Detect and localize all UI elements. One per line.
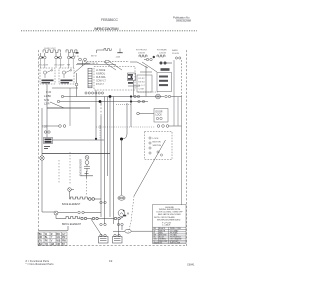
harness connector circles mid: [100, 201, 106, 203]
wire bus y101.5: [57, 100, 148, 102]
connector ladder strip: [88, 68, 92, 88]
junction node dot F: [95, 138, 97, 140]
wire dotted y127: [96, 126, 155, 128]
wire dashed row under relay: [138, 91, 158, 93]
bake element: [70, 197, 102, 200]
terminal drop from L1 pair: [75, 73, 78, 97]
svg-text:* = Non-Illustrated Parts: * = Non-Illustrated Parts: [26, 262, 55, 266]
svg-text:C6841: C6841: [187, 263, 195, 266]
center harness vertical 4: [109, 97, 111, 218]
svg-text:LR 1200W: LR 1200W: [54, 65, 65, 67]
wire diagonal L1 into control: [104, 62, 116, 70]
svg-text:LOCK: LOCK: [156, 115, 163, 117]
infinite switch box 1: [40, 68, 55, 84]
center harness vertical 1: [100, 102, 102, 218]
svg-text:BK W BK W: BK W BK W: [86, 63, 99, 65]
wire relay tee: [128, 62, 152, 97]
svg-text:BAKE ELEMENT: BAKE ELEMENT: [62, 203, 81, 206]
svg-text:K1 K2: K1 K2: [139, 78, 146, 80]
wire diagonal to N terminal: [74, 62, 87, 73]
relay box with contact dot: [128, 73, 136, 81]
svg-text:N.O. C: N.O. C: [139, 85, 146, 87]
wire dashed vertical x70 lower: [69, 152, 71, 185]
svg-text:5995352968: 5995352968: [176, 19, 191, 23]
terminal pair L1: [74, 52, 90, 66]
surface unit right front labels: [136, 50, 148, 55]
TOD lower dashes: [44, 147, 50, 149]
thermal fuse pair: [42, 125, 66, 129]
terminal pair P1: [39, 53, 46, 59]
svg-text:N BROIL: N BROIL: [96, 74, 106, 76]
wire drops from terminal pairs: [41, 59, 74, 68]
oven lamp oval: [118, 196, 125, 200]
wire row y212 left: [42, 211, 101, 219]
svg-text:LF 1200W: LF 1200W: [38, 65, 49, 67]
wire verticals to terminal blocks: [119, 220, 123, 236]
right chain connectors y126: [157, 125, 181, 128]
node labels L1 N L2 cluster: [44, 94, 51, 105]
junction node dot C: [130, 95, 132, 97]
diagram right dashed border: [186, 50, 188, 246]
arrow dark mark right of row: [123, 215, 126, 217]
footer page number: [109, 259, 113, 263]
svg-text:AND LATCH UNLOCKED: AND LATCH UNLOCKED: [158, 213, 181, 216]
wire right vertical x174: [173, 60, 175, 126]
svg-text:J = JACK: J = JACK: [162, 224, 171, 227]
svg-text:P-5 P-7: P-5 P-7: [96, 84, 105, 86]
small connector pair left: [44, 131, 50, 133]
svg-text:L1 BAKE: L1 BAKE: [96, 69, 106, 72]
diagonal dashed wire lower: [129, 196, 135, 232]
publication header: [173, 15, 191, 22]
surface element coil RR: [66, 50, 77, 53]
svg-text:DLB MDL: DLB MDL: [96, 77, 107, 79]
connector pair on bus top: [134, 95, 140, 97]
svg-text:SWITCH: SWITCH: [153, 145, 162, 147]
wire left vertical x42: [41, 108, 43, 212]
junction node dot E: [120, 138, 123, 141]
svg-text:YR: YR: [45, 243, 49, 246]
svg-text:J-B4: J-B4: [116, 57, 121, 59]
relay board box: [137, 75, 152, 92]
door lock box: [154, 109, 168, 123]
diagram bottom dashed border: [39, 245, 187, 247]
relay board connector: [137, 112, 154, 115]
svg-text:M: M: [127, 213, 129, 216]
svg-text:COM: COM: [139, 89, 144, 91]
terminal pair P2: [55, 53, 62, 59]
dotted leader line: [21, 30, 197, 32]
svg-text:LOCK: LOCK: [153, 138, 159, 140]
surface unit right rear labels: [157, 49, 167, 55]
wire dashed below cross: [86, 178, 88, 195]
wire vertical x131 drop: [130, 97, 132, 128]
infinite switch box 2: [59, 68, 74, 84]
wire L1 dashed feed: [84, 60, 129, 62]
wire heavy bus y108: [47, 107, 90, 109]
wire left vertical x47: [46, 84, 48, 138]
control box bottom terminal row: [85, 92, 104, 94]
svg-text:MOTOR: MOTOR: [153, 142, 162, 144]
wire bus y96.5: [61, 95, 181, 97]
oven light switch symbol: [40, 156, 44, 160]
wire dotted y104: [116, 104, 131, 106]
connector pair on bus lower: [138, 100, 145, 102]
svg-text:TCO: TCO: [42, 126, 47, 129]
svg-text:SURF UNIT: SURF UNIT: [44, 48, 56, 50]
latch motor box: [145, 132, 173, 160]
svg-text:OB: OB: [57, 243, 61, 246]
footer functional parts note: [26, 259, 55, 266]
broil element label: [62, 223, 82, 226]
convection motor: [118, 210, 129, 217]
oven sensor stack: [84, 156, 90, 172]
diagonal wire to terminal block: [91, 219, 102, 236]
wire corner with coil top: [97, 49, 112, 54]
footer document code: [187, 263, 195, 266]
lamp oval bottom: [113, 229, 153, 233]
wire diagonal N into control: [110, 62, 122, 70]
terminal block 1: [99, 234, 109, 243]
surface element coil right: [139, 55, 147, 57]
svg-text:RW RD-WH: RW RD-WH: [170, 243, 181, 245]
dark terminal pair right: [160, 62, 172, 64]
wire vertical x96: [95, 90, 97, 140]
surface element coil far right: [157, 55, 165, 57]
svg-text:BAKE: BAKE: [172, 49, 178, 52]
svg-text:SHOWN DE-ENERGIZED: SHOWN DE-ENERGIZED: [157, 220, 181, 222]
terminal pair right front: [144, 56, 155, 61]
terminal circles far right: [175, 57, 181, 59]
svg-text:RT REAR: RT REAR: [157, 49, 167, 52]
wire top bus under terminals: [38, 56, 116, 67]
wire right vertical dashed top: [181, 60, 183, 97]
chassis ground cross: [80, 171, 93, 178]
wire right verticals mid: [178, 97, 182, 205]
svg-text:2350W: 2350W: [138, 53, 146, 55]
svg-text:CONV LT: CONV LT: [96, 81, 106, 83]
legend notes box: [153, 205, 187, 245]
svg-text:BK W: BK W: [91, 56, 98, 58]
wire vertical from node E: [121, 139, 123, 195]
svg-text:BY: BY: [62, 243, 66, 246]
oven sensor vertical label: [81, 159, 83, 176]
wire under switch boxes: [46, 88, 78, 94]
wire diagonal right feed: [142, 62, 157, 72]
broil element row: [56, 217, 123, 220]
svg-text:OVEN SENSOR: OVEN SENSOR: [81, 159, 83, 176]
junction node dot D: [130, 100, 132, 102]
wire dashed vertical x59: [58, 160, 60, 183]
svg-text:L1 N: L1 N: [74, 56, 79, 58]
center harness vertical 3: [107, 97, 109, 177]
terminal block 2: [113, 234, 123, 243]
surface element coil LF label text: [44, 48, 56, 50]
model number header FEB386CC: [101, 18, 119, 22]
junction cross at x100: [99, 125, 101, 139]
wire diagonal L2: [50, 102, 64, 108]
surface element coil RF: [43, 50, 61, 53]
svg-text:FEB386CC: FEB386CC: [101, 18, 119, 22]
svg-text:GB: GB: [51, 243, 55, 246]
svg-text:2100W: 2100W: [172, 53, 180, 55]
wire hook into junction: [122, 103, 128, 139]
wire TOD to right: [53, 139, 105, 141]
bake element label: [62, 203, 81, 206]
oven control board box EOC: [94, 67, 135, 91]
bake element terminal left: [68, 188, 74, 199]
junction node dot B: [99, 100, 102, 103]
title WIRING DIAGRAM: [94, 27, 119, 31]
TOD thermostat box: [44, 138, 53, 144]
relay contacts dark cluster: [128, 74, 133, 84]
ground symbol: [116, 49, 123, 59]
svg-text:L1 BK: L1 BK: [44, 94, 51, 98]
wire heavy y153.5: [42, 153, 110, 155]
svg-text:19: 19: [109, 259, 113, 263]
diagonal wire lock to fan: [134, 140, 166, 196]
transformer label dark row: [161, 68, 170, 71]
terminal pair P3: [68, 53, 75, 59]
wire table top: [39, 226, 69, 231]
svg-text:DOOR: DOOR: [156, 112, 163, 114]
svg-text:1250W: 1250W: [159, 53, 167, 55]
center harness vertical 2: [104, 97, 106, 225]
top right corner labels: [172, 49, 180, 55]
svg-text:BROIL ELEMENT: BROIL ELEMENT: [62, 223, 82, 226]
connector circles y224: [100, 223, 123, 225]
svg-text:K3 K4: K3 K4: [139, 82, 146, 84]
diagram left dashed border: [38, 50, 40, 246]
oven lamp symbol: [156, 94, 171, 99]
junction node dot A: [109, 95, 112, 98]
transformer box: [157, 73, 172, 92]
wire left vertical x70: [69, 88, 71, 126]
center harness vertical 5: [113, 97, 115, 225]
wire color code table: [38, 232, 67, 246]
svg-text:RT FRONT: RT FRONT: [136, 50, 148, 52]
